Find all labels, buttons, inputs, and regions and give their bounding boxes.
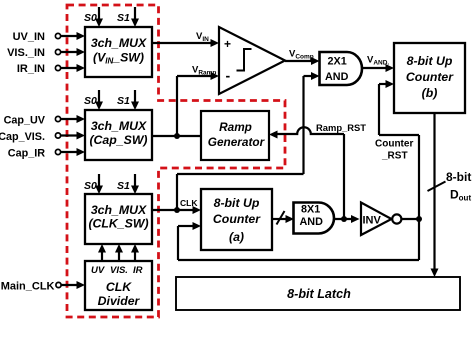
wire VIS._IN to MUX1	[61, 48, 85, 56]
select S1 arrow MUX1	[117, 7, 139, 27]
wire UV_IN to MUX1	[61, 32, 85, 40]
and-gate U9 8X1 AND	[294, 203, 334, 234]
svg-text:Main_CLK: Main_CLK	[1, 281, 55, 293]
node IR_IN terminal	[17, 63, 61, 75]
svg-text:Cap_UV: Cap_UV	[4, 115, 46, 127]
svg-text:Counter: Counter	[406, 70, 454, 84]
wire Dout: counter (b) to latch	[428, 113, 472, 277]
svg-text:+: +	[224, 37, 231, 51]
svg-text:UV: UV	[91, 265, 105, 276]
wire bus: counter (a) to 8X1 AND	[272, 211, 294, 225]
comparator U3	[219, 27, 285, 94]
mux U1 3ch_MUX (VIN_SW)	[85, 27, 152, 77]
svg-text:CLK: CLK	[180, 198, 198, 208]
svg-text:2X1: 2X1	[328, 56, 347, 68]
wire MUX2 out to Ramp Generator	[152, 135, 201, 137]
wire Cap_UV to MUX2	[61, 115, 85, 123]
select S1 arrow MUX2	[117, 90, 139, 110]
node CLK junction	[174, 207, 180, 213]
svg-text:VIS._IN: VIS._IN	[7, 47, 45, 59]
svg-text:(VIN_SW): (VIN_SW)	[93, 51, 144, 66]
node VRamp junction	[174, 133, 180, 139]
node Cap_UV terminal	[4, 115, 61, 127]
svg-text:IR: IR	[133, 265, 143, 276]
svg-text:S0: S0	[84, 12, 97, 24]
wire VIS clock: divider to MUX3	[115, 244, 123, 261]
wire IR_IN to MUX1	[61, 64, 85, 72]
svg-text:AND: AND	[300, 216, 324, 228]
svg-text:Divider: Divider	[98, 294, 141, 308]
node Cap_IR terminal	[8, 148, 61, 160]
svg-text:8-bit Up: 8-bit Up	[407, 54, 453, 68]
counter U8 8-bit Up Counter (a)	[201, 189, 272, 250]
svg-text:8-bit Up: 8-bit Up	[214, 196, 260, 210]
svg-text:AND: AND	[325, 71, 349, 83]
mux U7 3ch_MUX (CLK_SW)	[85, 194, 152, 244]
svg-text:Cap_IR: Cap_IR	[8, 148, 45, 160]
select S0 arrow MUX1	[84, 7, 103, 27]
svg-text:3ch_MUX: 3ch_MUX	[91, 119, 147, 133]
wire Ramp_RST: node to Ramp Generator with hop	[269, 122, 366, 219]
svg-text:(CLK_SW): (CLK_SW)	[88, 217, 148, 231]
svg-text:S1: S1	[117, 95, 130, 107]
svg-text:8-bit Latch: 8-bit Latch	[287, 287, 351, 301]
wire UV clock: divider to MUX3	[98, 244, 106, 261]
wire Main_CLK to CLK Divider	[62, 281, 86, 289]
svg-text:S1: S1	[117, 12, 130, 24]
svg-text:8X1: 8X1	[301, 204, 320, 216]
svg-text:Counter: Counter	[375, 139, 413, 150]
select S0 arrow MUX2	[84, 90, 103, 110]
wire CLK feedback to 2X1 AND lower input	[177, 72, 320, 210]
svg-text:S1: S1	[117, 180, 130, 192]
select S1 arrow MUX3	[117, 174, 139, 194]
node INV output junction	[416, 216, 422, 222]
latch U11 8-bit Latch	[176, 277, 460, 310]
svg-text:-: -	[226, 68, 231, 84]
svg-text:Counter: Counter	[213, 212, 261, 226]
svg-text:(a): (a)	[229, 230, 244, 244]
wire 8X1 AND out to INV	[334, 215, 360, 223]
wire VComp: comparator to 2X1 AND	[285, 49, 320, 66]
node Ramp_RST junction	[341, 216, 347, 222]
wire VRamp: node to comparator	[177, 65, 219, 137]
svg-text:8-bit: 8-bit	[446, 170, 471, 184]
svg-text:UV_IN: UV_IN	[13, 31, 45, 43]
wire Counter_RST: INV node to counter (b)	[375, 80, 419, 260]
node Cap_VIS. terminal	[0, 131, 61, 143]
node UV_IN terminal	[13, 31, 61, 43]
svg-text:IR_IN: IR_IN	[17, 63, 45, 75]
counter U5 8-bit Up Counter (b)	[394, 43, 465, 113]
wire counter (a) reset feedback	[178, 222, 419, 260]
wire CLK: MUX3 to counter (a)	[152, 198, 201, 214]
svg-text:3ch_MUX: 3ch_MUX	[91, 203, 147, 217]
wire INV out to node	[401, 218, 419, 220]
wire VAND: 2X1 AND to counter (b)	[362, 55, 395, 73]
svg-text:VIS.: VIS.	[110, 265, 128, 276]
node VIS._IN terminal	[7, 47, 61, 59]
divider U12 CLK Divider	[85, 261, 152, 310]
mux U2 3ch_MUX (Cap_SW)	[85, 110, 152, 160]
red dashed switch-region outline	[67, 5, 285, 317]
svg-text:Generator: Generator	[208, 135, 266, 149]
svg-text:(b): (b)	[422, 86, 438, 100]
wire IR clock: divider to MUX3	[131, 244, 139, 261]
svg-text:Ramp_RST: Ramp_RST	[316, 122, 366, 133]
svg-text:3ch_MUX: 3ch_MUX	[91, 36, 147, 50]
node Main_CLK terminal	[1, 281, 61, 293]
generator U6 Ramp Generator	[201, 111, 269, 160]
svg-text:_RST: _RST	[381, 151, 408, 162]
svg-text:S0: S0	[84, 95, 97, 107]
svg-text:S0: S0	[84, 180, 97, 192]
select S0 arrow MUX3	[84, 174, 103, 194]
inverter U10 INV	[361, 203, 401, 236]
svg-text:INV: INV	[363, 215, 382, 227]
wire Cap_VIS. to MUX2	[61, 132, 85, 140]
svg-text:Cap_VIS.: Cap_VIS.	[0, 131, 45, 143]
wire VIN: MUX1 to comparator	[152, 31, 219, 47]
svg-text:(Cap_SW): (Cap_SW)	[89, 133, 147, 147]
and-gate U4 2X1 AND	[320, 52, 363, 85]
svg-text:CLK: CLK	[106, 280, 132, 294]
wire Cap_IR to MUX2	[61, 148, 85, 156]
svg-text:Ramp: Ramp	[219, 120, 252, 134]
